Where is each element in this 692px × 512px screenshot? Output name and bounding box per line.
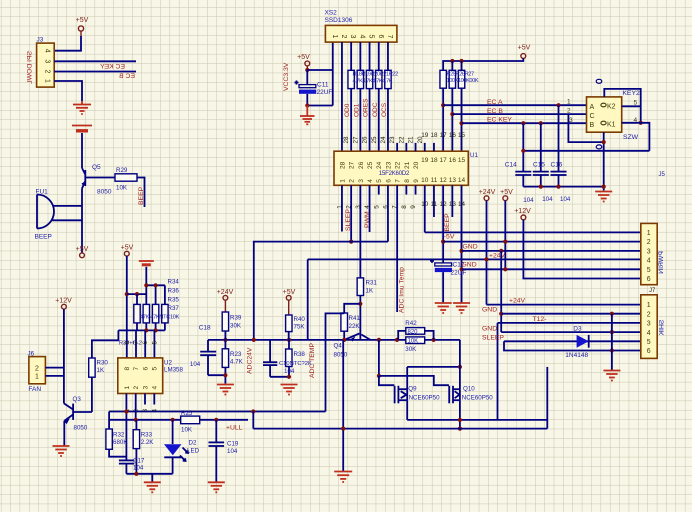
wire main mid rail y340 xyxy=(208,339,460,341)
resistor R22 xyxy=(385,70,391,88)
node EC KEY junction xyxy=(459,121,463,125)
svg-text:OD0: OD0 xyxy=(344,103,351,117)
node row6 x611.9 xyxy=(610,348,614,352)
wire R26 top stub xyxy=(451,61,453,70)
svg-text:+5V: +5V xyxy=(121,245,134,252)
node EC B junction xyxy=(450,112,454,116)
wire XS2 pin4 column xyxy=(359,42,361,70)
pin stub U1-20 top xyxy=(415,143,417,151)
svg-text:R23: R23 xyxy=(230,351,242,358)
wire EC A rail xyxy=(443,104,586,106)
wire U1 pin10 column xyxy=(424,185,426,232)
svg-text:8: 8 xyxy=(124,341,131,345)
wire R37 bottom stub xyxy=(164,323,166,331)
svg-text:Q10: Q10 xyxy=(463,386,475,393)
capacitor C15 xyxy=(533,162,549,187)
buzzer FU1 BEEP xyxy=(35,189,55,241)
svg-text:J5: J5 xyxy=(659,172,666,178)
svg-text:R36: R36 xyxy=(168,288,180,295)
svg-text:B: B xyxy=(590,122,595,129)
wire U1 pin2 column xyxy=(350,185,352,241)
wire mid rail (U1 pin2/pin6) xyxy=(254,242,388,340)
svg-text:+24V: +24V xyxy=(479,189,496,196)
svg-text:1: 1 xyxy=(124,386,131,390)
svg-text:12: 12 xyxy=(440,177,448,184)
capacitor C12 22UF xyxy=(430,259,466,303)
svg-text:4: 4 xyxy=(367,179,374,183)
node C15 top tap xyxy=(539,121,543,125)
svg-text:R25: R25 xyxy=(181,410,193,417)
svg-text:C19: C19 xyxy=(227,441,239,448)
wire KEY2 pin5 row xyxy=(622,105,641,107)
svg-text:SSD1306: SSD1306 xyxy=(325,17,353,24)
svg-text:2: 2 xyxy=(349,179,356,183)
svg-text:R40: R40 xyxy=(294,316,306,323)
wire C16 column xyxy=(558,105,560,171)
svg-text:6: 6 xyxy=(142,367,149,371)
svg-text:GND: GND xyxy=(462,262,477,269)
pin stub U1-13 xyxy=(451,185,453,217)
svg-text:R37: R37 xyxy=(168,305,180,312)
svg-text:6: 6 xyxy=(377,35,384,39)
svg-text:ADC TEMP: ADC TEMP xyxy=(309,343,316,378)
svg-text:C10NTC?2K: C10NTC?2K xyxy=(279,361,312,367)
svg-text:1: 1 xyxy=(331,35,338,39)
wire XS2 pin6 column xyxy=(378,42,380,70)
svg-text:U1: U1 xyxy=(470,152,478,159)
wire U2 pin1 down xyxy=(125,394,127,461)
wire R30 top jog xyxy=(92,330,119,358)
svg-text:BEEP: BEEP xyxy=(35,234,52,241)
svg-text:Q9: Q9 xyxy=(408,386,417,393)
wire R41 top jog xyxy=(344,304,360,313)
node C15 bottom xyxy=(539,185,543,189)
resistor R33 2.2K xyxy=(133,420,154,449)
resistor R20 xyxy=(366,70,372,88)
svg-text:ADC24V: ADC24V xyxy=(246,347,253,374)
pin numbers above U2 xyxy=(124,341,159,345)
wire R20 bottom to U1 pin25 xyxy=(369,89,371,152)
svg-text:R41: R41 xyxy=(349,315,361,322)
node R42 left junction xyxy=(395,338,399,342)
svg-text:15: 15 xyxy=(458,132,466,139)
wire Q3 emitter down xyxy=(63,421,65,446)
svg-text:A: A xyxy=(590,104,595,111)
wire bottom rail y428 xyxy=(253,428,547,430)
wire +12V column to Q3 xyxy=(63,309,65,403)
resistor R27 xyxy=(458,70,464,88)
svg-text:3: 3 xyxy=(142,386,149,390)
wire bar symbol down xyxy=(145,267,147,305)
wire R29 right down (net BEEP) xyxy=(137,178,145,208)
svg-text:C15: C15 xyxy=(533,162,545,169)
svg-text:1N4148: 1N4148 xyxy=(565,352,588,359)
mosfet Q9 NCE60P50 xyxy=(395,386,441,404)
resistor R19 xyxy=(357,70,363,88)
node GND2 rail junction xyxy=(459,267,463,271)
svg-text:+24V: +24V xyxy=(509,298,526,305)
node -5V rail junction xyxy=(441,240,445,244)
svg-text:2: 2 xyxy=(647,239,651,246)
svg-text:Q3: Q3 xyxy=(73,396,82,403)
mosfet Q10 NCE60P50 xyxy=(449,386,493,404)
svg-text:100K100K00K: 100K100K00K xyxy=(447,78,479,84)
wire bar symbol to Q5 xyxy=(81,133,83,168)
svg-text:SPI DOWL: SPI DOWL xyxy=(27,51,34,84)
resistor R18 xyxy=(348,70,354,88)
node R26 top xyxy=(450,59,454,63)
label VCC3.3V (vertical) xyxy=(283,62,290,91)
node Q4 emitter junction xyxy=(342,338,346,342)
node row2 x611.9 xyxy=(610,312,614,316)
transistor Q3 xyxy=(64,396,88,432)
wire EC B rail xyxy=(452,113,586,115)
wire R21 bottom to U1 pin24 xyxy=(378,89,380,152)
svg-text:R35: R35 xyxy=(168,297,180,304)
wire bottom-left ground rail xyxy=(126,473,172,475)
node R36 bottom xyxy=(144,328,148,332)
svg-text:BEEP: BEEP xyxy=(444,213,451,232)
resistor R43 10K xyxy=(405,337,424,353)
power +24V (R39) xyxy=(217,289,234,312)
pin stub U1-18 top xyxy=(433,143,435,151)
svg-text:BEEP: BEEP xyxy=(138,186,145,205)
power +5V (R40) xyxy=(283,289,296,315)
svg-text:C18: C18 xyxy=(199,324,211,331)
svg-text:30K: 30K xyxy=(405,346,417,353)
node SZW row tap xyxy=(521,149,525,153)
wire R37 top stub xyxy=(164,285,166,304)
wire Q9 gate feed xyxy=(379,376,394,385)
pin numbers below U2 xyxy=(124,409,159,413)
connector J6 FAN xyxy=(28,351,46,393)
svg-text:10: 10 xyxy=(421,177,429,184)
svg-text:1: 1 xyxy=(647,230,651,237)
svg-text:C17: C17 xyxy=(133,458,145,465)
capacitor C14 xyxy=(505,162,532,187)
capacitor C10 xyxy=(263,340,295,377)
svg-text:17: 17 xyxy=(440,132,448,139)
wire J3 pin2 (net EC B) xyxy=(54,71,136,73)
svg-text:4.7K4.7K4.7K4.7K: 4.7K4.7K4.7K4.7K xyxy=(353,79,393,85)
svg-text:820: 820 xyxy=(408,329,419,335)
resistor R42 820 xyxy=(405,320,424,335)
svg-text:6: 6 xyxy=(385,179,392,183)
svg-text:5: 5 xyxy=(373,205,380,209)
wire J3 pin3 (net EC KEY) xyxy=(54,60,136,62)
wire pullup top rail xyxy=(443,58,523,70)
svg-text:47K 47KNTC10K: 47K 47KNTC10K xyxy=(140,315,180,321)
node R42 right junction xyxy=(432,338,436,342)
svg-text:10K: 10K xyxy=(116,185,128,192)
svg-text:24: 24 xyxy=(380,136,387,144)
node GND row4 x611.9 xyxy=(610,330,614,334)
resistor R23 4.7K xyxy=(222,340,243,384)
svg-text:27: 27 xyxy=(352,136,359,144)
wire R26 bottom to U1 pin16 column xyxy=(451,88,453,151)
svg-text:J7: J7 xyxy=(649,288,656,294)
wire J6 pin1 row xyxy=(45,375,64,377)
svg-text:13: 13 xyxy=(449,177,457,184)
svg-text:GND: GND xyxy=(482,326,497,333)
label ADC Imu Temp (vertical) xyxy=(399,267,406,313)
node R36 top xyxy=(144,283,148,287)
node +24V row4 xyxy=(484,257,488,261)
wire U2 pin2 down xyxy=(135,394,137,420)
wire C18/R23 bottom rail xyxy=(208,374,225,376)
wire buzzer pin2 xyxy=(52,219,82,221)
node C11 bottom junction xyxy=(305,103,309,107)
label SLEEP (vertical) xyxy=(345,209,352,231)
svg-text:R25R26R27: R25R26R27 xyxy=(447,72,474,78)
wire R31 bottom to Q4 base xyxy=(359,296,361,332)
pin stub U2-3 xyxy=(144,394,146,405)
svg-text:27: 27 xyxy=(349,161,356,169)
ground (below C12) xyxy=(435,303,452,313)
wire R30 column xyxy=(91,377,93,412)
connector XS2 SSD1306 xyxy=(325,10,397,43)
node Q10 source rail1 xyxy=(458,418,462,422)
svg-text:22: 22 xyxy=(398,136,405,144)
label ODC (vertical) xyxy=(372,102,379,117)
svg-text:+12V: +12V xyxy=(514,208,531,215)
node gate branch junction xyxy=(377,338,381,342)
svg-text:+ULL: +ULL xyxy=(226,425,243,432)
svg-text:1: 1 xyxy=(44,79,51,83)
svg-text:K2: K2 xyxy=(607,104,616,111)
svg-text:104: 104 xyxy=(227,448,238,455)
svg-text:4: 4 xyxy=(647,330,651,337)
node rail A drop xyxy=(251,409,255,413)
wire rail A to rail y428 drop xyxy=(252,412,254,429)
ground (bottom center) xyxy=(334,472,352,483)
svg-text:R31: R31 xyxy=(366,280,378,287)
svg-text:2: 2 xyxy=(647,311,651,318)
node center ground rail tap xyxy=(341,427,345,431)
svg-text:25: 25 xyxy=(367,161,374,169)
svg-text:7: 7 xyxy=(395,179,402,183)
node gate tee xyxy=(377,374,381,378)
resistor R35 xyxy=(152,304,158,323)
node R41 tap xyxy=(358,302,362,306)
wire PWRIN row3 (GND) xyxy=(462,250,641,252)
svg-text:2: 2 xyxy=(44,70,51,74)
svg-text:XS2: XS2 xyxy=(325,10,338,17)
svg-text:7: 7 xyxy=(133,367,140,371)
node Q10 source rail2 xyxy=(458,427,462,431)
wire SHIK row6 xyxy=(504,341,641,350)
svg-text:OCS: OCS xyxy=(381,102,388,117)
pin stub U1-11 xyxy=(433,185,435,217)
ground (bottom left) xyxy=(144,482,161,492)
svg-text:R18R19R20R21R22: R18R19R20R21R22 xyxy=(353,72,399,78)
wire KEY2 pin4 row xyxy=(622,123,650,151)
svg-text:20: 20 xyxy=(413,161,420,169)
label ADC24V (vertical) xyxy=(246,347,253,374)
ground (below R38) xyxy=(281,385,298,395)
resistor R41 22K xyxy=(341,313,361,331)
svg-text:8050: 8050 xyxy=(74,425,88,432)
svg-text:18: 18 xyxy=(430,157,438,164)
svg-text:C16: C16 xyxy=(551,162,563,169)
svg-text:14: 14 xyxy=(458,177,466,184)
svg-text:R30: R30 xyxy=(97,360,109,367)
wire R35 top stub xyxy=(155,285,157,304)
label BEEP (vertical) xyxy=(444,213,451,232)
label BEEP (vertical) xyxy=(138,186,145,205)
svg-text:6: 6 xyxy=(647,348,651,355)
transistor Q4 xyxy=(334,331,371,359)
node R35 top xyxy=(154,283,158,287)
svg-text:OD1: OD1 xyxy=(353,103,360,117)
wire ground column x611.9 xyxy=(611,314,613,370)
svg-text:2: 2 xyxy=(35,365,39,372)
node C18 junction xyxy=(223,338,227,342)
wire R34 top stub xyxy=(136,294,138,304)
connector J3 xyxy=(37,37,55,88)
svg-text:EC KEY: EC KEY xyxy=(487,117,512,124)
label EC B (mirrored) xyxy=(119,73,135,80)
svg-text:8: 8 xyxy=(124,367,131,371)
wire gate rail xyxy=(379,376,449,385)
wire rail B y420 xyxy=(109,419,248,421)
label ADC TEMP (vertical) xyxy=(309,343,316,378)
svg-text:C: C xyxy=(590,113,595,120)
svg-text:5: 5 xyxy=(647,339,651,346)
wire U1 pin3 column to R31 xyxy=(359,185,361,278)
svg-text:C14: C14 xyxy=(505,162,517,169)
svg-text:LED: LED xyxy=(187,447,200,454)
wire SHIK row5 (SLEEP) xyxy=(504,340,641,342)
svg-text:8050: 8050 xyxy=(334,352,348,359)
pin stub U2-4 xyxy=(153,394,155,405)
wire Q5 emitter down xyxy=(81,189,83,253)
wire R37 top rail xyxy=(146,284,165,286)
MCU U1 15F2K60D2 xyxy=(334,151,478,185)
power +5V (opamp bank) xyxy=(121,245,134,257)
label PWRIN (mirrored vertical) xyxy=(658,251,665,274)
node U2 pin1 rail xyxy=(124,409,128,413)
wire SHIK row3 (T12-) xyxy=(498,322,641,324)
svg-text:22UF: 22UF xyxy=(317,89,333,96)
pin numbers below U1 (outside) xyxy=(337,201,466,209)
svg-text:D3: D3 xyxy=(573,326,582,333)
node R40 junction xyxy=(287,338,291,342)
wire PWRIN row2 (-5V) xyxy=(443,241,641,243)
svg-text:104: 104 xyxy=(542,196,553,203)
svg-text:75K: 75K xyxy=(294,324,306,331)
label OD0 (vertical) xyxy=(344,103,351,117)
wire U1 pin1 (net SLEEP) xyxy=(341,185,343,231)
wire J3 pin4 to +5V xyxy=(54,36,81,51)
svg-text:3: 3 xyxy=(647,321,651,328)
svg-text:15F2K60D2: 15F2K60D2 xyxy=(379,171,410,177)
node GND branch xyxy=(499,249,503,253)
wire GND branch vertical xyxy=(500,251,502,332)
switch KEY2 xyxy=(587,90,641,132)
svg-text:+12V: +12V xyxy=(55,298,72,305)
svg-text:23: 23 xyxy=(389,136,396,144)
resistor R36 xyxy=(143,304,149,323)
wire R34 top rail xyxy=(127,293,147,295)
switch contact (top) xyxy=(596,79,602,83)
node KEY2 C loop junction xyxy=(602,140,606,144)
wire PWRIN row4 (+24V) xyxy=(308,258,641,260)
node pin2 rail tap xyxy=(349,240,353,244)
wire C15 column xyxy=(540,123,542,171)
node R27 top xyxy=(459,59,463,63)
svg-text:28: 28 xyxy=(339,161,346,169)
svg-text:3: 3 xyxy=(647,248,651,255)
wire R18 bottom to U1 pin27 xyxy=(350,89,352,152)
svg-text:Q5: Q5 xyxy=(92,164,101,171)
wire KEY2 bottom column xyxy=(603,132,605,190)
wire R32 column xyxy=(108,412,110,430)
svg-text:1: 1 xyxy=(339,179,346,183)
svg-text:R39: R39 xyxy=(230,315,242,322)
resistor R34 xyxy=(134,304,140,323)
svg-text:16: 16 xyxy=(449,157,457,164)
wire R25 bottom to U1 pin17 column xyxy=(442,88,444,151)
wire R27 top stub xyxy=(461,61,463,70)
capacitor C16 xyxy=(551,162,567,187)
power +5V (VCC3.3 rail) xyxy=(297,54,310,70)
svg-text:VCC3.3V: VCC3.3V xyxy=(283,62,290,91)
svg-text:NCE60P50: NCE60P50 xyxy=(409,394,441,401)
svg-text:K1: K1 xyxy=(607,122,616,129)
power bar symbol (above R36) xyxy=(139,261,154,265)
svg-text:PWRIN: PWRIN xyxy=(658,251,665,274)
svg-text:6: 6 xyxy=(647,276,651,283)
svg-text:19: 19 xyxy=(421,157,429,164)
node +5V col row5 xyxy=(503,267,507,271)
wire J6 pin2 row xyxy=(45,367,64,369)
svg-text:21: 21 xyxy=(408,136,415,144)
node KEY2 pin4 junction xyxy=(639,121,643,125)
svg-text:19: 19 xyxy=(421,132,429,139)
wire SHIK row2 (GND) xyxy=(501,313,641,315)
pin numbers above U1 (outside) xyxy=(343,132,465,144)
wire buzzer pin1 xyxy=(53,205,82,207)
ground (below C19) xyxy=(208,482,225,492)
wire R22 bottom to U1 pin23 xyxy=(387,89,389,152)
resistor R21 xyxy=(376,70,382,88)
svg-text:6: 6 xyxy=(142,341,149,345)
wire VCC rail to XS2 pin1 column xyxy=(307,69,332,71)
node R35 bottom xyxy=(154,328,158,332)
svg-text:EC KEY: EC KEY xyxy=(100,63,125,70)
wire U1 pin7 (net ADC Imu Temp) xyxy=(396,185,398,312)
switch contact (bottom) xyxy=(596,145,602,149)
transistor Q5 xyxy=(82,164,112,196)
label OCS (vertical) xyxy=(381,102,388,117)
node C19 rail B xyxy=(214,418,218,422)
svg-text:-5V: -5V xyxy=(444,234,455,241)
resistor R39 30K xyxy=(222,312,242,340)
opamp U2 LM358 xyxy=(118,358,184,394)
ground (below KEY2) xyxy=(595,192,612,202)
wire XS2 pin1 column xyxy=(332,42,334,105)
svg-text:2: 2 xyxy=(340,35,347,39)
svg-text:FAN: FAN xyxy=(28,386,41,393)
svg-text:17: 17 xyxy=(440,157,448,164)
svg-text:GND: GND xyxy=(482,307,497,314)
ground (below U1 pin14) xyxy=(453,303,470,313)
svg-text:U2: U2 xyxy=(164,360,172,367)
wire U1 pin14 column xyxy=(461,185,463,302)
wire ground drop xyxy=(151,474,153,482)
svg-text:24: 24 xyxy=(376,161,383,169)
